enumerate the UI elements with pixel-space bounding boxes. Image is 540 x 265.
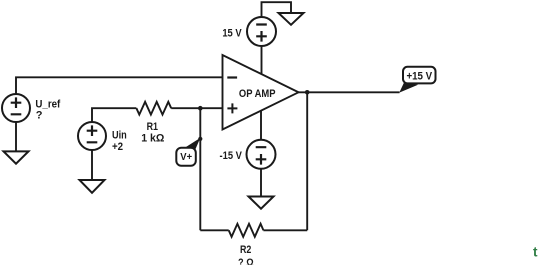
wire: U_ref bottom to ground [15, 122, 17, 151]
svg-text:R1: R1 [147, 121, 158, 133]
svg-text:V+: V+ [180, 151, 192, 163]
svg-text:U_ref: U_ref [35, 99, 60, 111]
flag V+ pointer [184, 138, 200, 150]
output node dot [305, 90, 310, 95]
wire: junction down to bottom rail [199, 108, 201, 230]
svg-text:+15 V: +15 V [406, 71, 432, 83]
wire: -15V bottom to ground [260, 169, 262, 197]
op-amp U1 [223, 55, 299, 130]
node junction dot [198, 106, 203, 111]
resistor R1 [136, 102, 171, 115]
svg-text:15 V: 15 V [222, 28, 242, 40]
wire: op-amp to -15V [260, 111, 262, 140]
svg-text:R2: R2 [240, 244, 251, 256]
wire: R1 to op-amp non-inverting input [171, 107, 222, 109]
node V+ attach dot [198, 137, 202, 141]
wire: bottom rail left [200, 229, 228, 231]
ground (Uin) [80, 180, 105, 193]
flag +15V [403, 67, 436, 84]
voltage source 15V (top) [247, 17, 276, 46]
wire: bottom rail right [263, 229, 307, 231]
wire: Uin top to R1 [92, 108, 136, 122]
flag V+ [176, 148, 196, 166]
svg-text:?: ? [36, 110, 43, 122]
svg-text:+2: +2 [112, 141, 123, 153]
wire: 15V top to ground [262, 2, 292, 17]
wire: output node down to R2 [306, 92, 308, 230]
ground (U_ref) [4, 151, 29, 163]
wire: top supply to op-amp [261, 46, 263, 74]
wire: U_ref top to op-amp inverting input [16, 77, 223, 94]
svg-text:OP AMP: OP AMP [239, 88, 276, 100]
flag +15V pointer [399, 82, 418, 93]
svg-text:? Ω: ? Ω [238, 257, 254, 265]
ground (-15V) [249, 197, 274, 209]
svg-text:Uin: Uin [112, 129, 127, 141]
resistor R2 [229, 224, 264, 237]
wire: Uin bottom to ground [91, 150, 93, 180]
ground (top right) [279, 13, 304, 25]
svg-text:t: t [533, 245, 538, 260]
svg-text:-15 V: -15 V [220, 150, 243, 162]
wire: op-amp output [299, 91, 400, 93]
svg-text:1 kΩ: 1 kΩ [141, 133, 164, 145]
voltage source -15V (bottom) [247, 140, 276, 169]
voltage source Uin [78, 122, 106, 150]
voltage source U_ref [2, 94, 30, 122]
